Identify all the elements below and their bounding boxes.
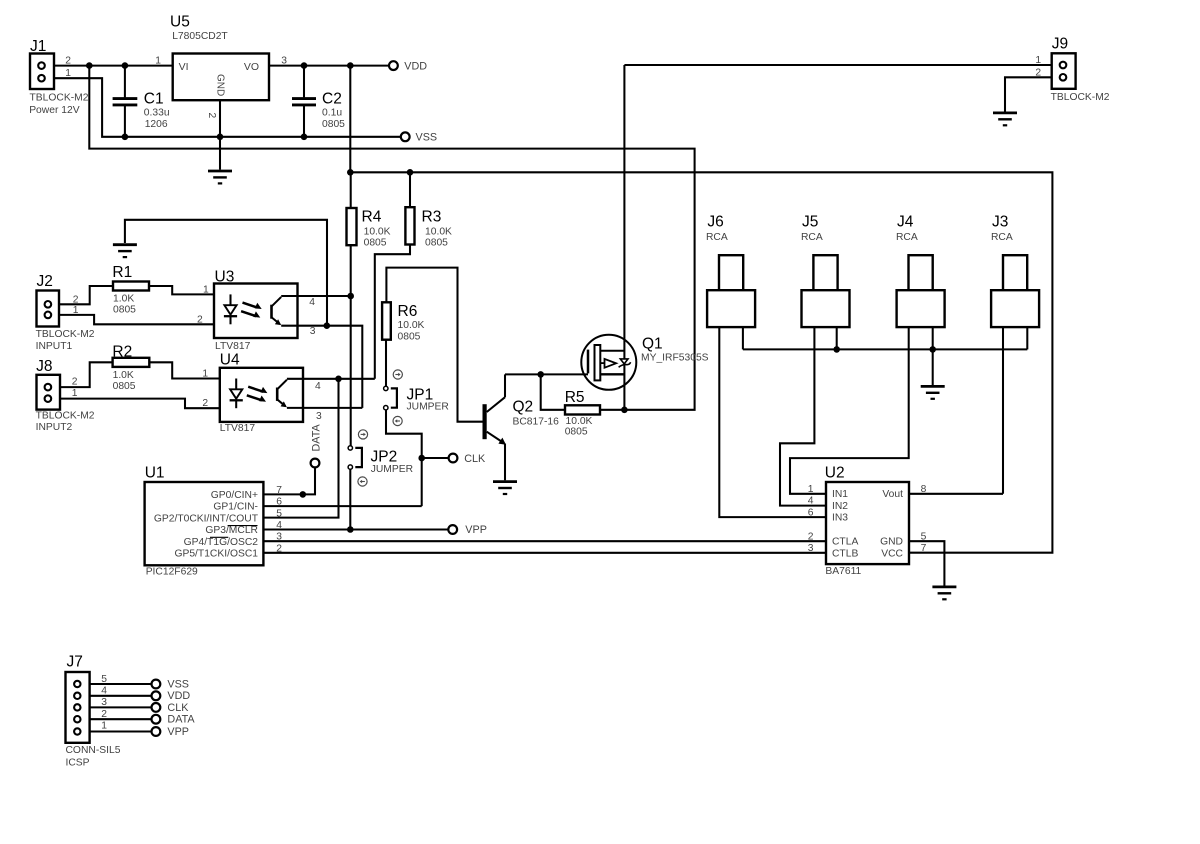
svg-text:VCC: VCC <box>881 548 903 559</box>
svg-text:4: 4 <box>309 297 315 308</box>
svg-text:1: 1 <box>202 369 208 380</box>
svg-text:5: 5 <box>101 674 107 685</box>
svg-text:5: 5 <box>276 508 282 519</box>
svg-text:L7805CD2T: L7805CD2T <box>172 31 228 42</box>
svg-text:IN3: IN3 <box>832 513 848 524</box>
svg-text:1: 1 <box>101 721 107 732</box>
svg-text:J8: J8 <box>36 358 52 375</box>
svg-text:J6: J6 <box>707 213 723 230</box>
svg-text:U1: U1 <box>145 464 165 481</box>
svg-text:U2: U2 <box>825 465 845 482</box>
svg-text:10.0K: 10.0K <box>566 416 593 427</box>
svg-text:1206: 1206 <box>145 119 168 130</box>
svg-text:8: 8 <box>921 484 927 495</box>
svg-text:R2: R2 <box>112 344 132 361</box>
svg-text:VSS: VSS <box>416 132 438 144</box>
svg-text:VO: VO <box>244 61 259 73</box>
svg-text:2: 2 <box>206 113 217 119</box>
svg-text:3: 3 <box>281 55 287 66</box>
svg-text:VSS: VSS <box>167 678 189 690</box>
svg-text:GND: GND <box>215 74 226 96</box>
svg-text:BA7611: BA7611 <box>825 566 861 577</box>
svg-text:6: 6 <box>808 507 814 518</box>
svg-text:IN1: IN1 <box>832 489 848 500</box>
svg-text:VDD: VDD <box>167 690 190 702</box>
svg-text:0805: 0805 <box>565 427 588 438</box>
svg-text:INPUT1: INPUT1 <box>36 341 73 352</box>
svg-text:CTLA: CTLA <box>832 537 858 548</box>
svg-text:2: 2 <box>101 709 107 720</box>
svg-text:Q1: Q1 <box>642 336 663 353</box>
svg-text:7: 7 <box>276 485 282 496</box>
svg-text:GP4/T1G/OSC2: GP4/T1G/OSC2 <box>184 537 259 548</box>
svg-text:2: 2 <box>1035 67 1041 78</box>
svg-text:RCA: RCA <box>896 232 918 243</box>
svg-text:R5: R5 <box>565 389 585 406</box>
svg-text:3: 3 <box>101 697 107 708</box>
svg-text:GP3/MCLR: GP3/MCLR <box>205 525 258 536</box>
svg-text:4: 4 <box>276 520 282 531</box>
svg-text:4: 4 <box>808 496 814 507</box>
svg-text:1: 1 <box>72 388 78 399</box>
svg-text:R4: R4 <box>362 208 382 225</box>
svg-text:7: 7 <box>921 543 927 554</box>
svg-text:U4: U4 <box>220 352 240 369</box>
svg-text:2: 2 <box>197 314 203 325</box>
svg-text:TBLOCK-M2: TBLOCK-M2 <box>30 93 89 104</box>
svg-text:U5: U5 <box>170 14 190 31</box>
svg-text:JUMPER: JUMPER <box>371 464 413 475</box>
svg-text:JUMPER: JUMPER <box>407 402 449 413</box>
svg-text:PIC12F629: PIC12F629 <box>146 567 198 578</box>
svg-text:1: 1 <box>1035 55 1041 66</box>
svg-text:GP0/CIN+: GP0/CIN+ <box>211 490 258 501</box>
svg-text:J4: J4 <box>897 213 914 230</box>
svg-text:5: 5 <box>921 532 927 543</box>
svg-text:Vout: Vout <box>882 489 903 500</box>
svg-text:VDD: VDD <box>404 60 427 72</box>
svg-text:0.33u: 0.33u <box>144 107 170 118</box>
svg-text:ICSP: ICSP <box>66 757 90 768</box>
svg-text:3: 3 <box>808 543 814 554</box>
svg-text:C1: C1 <box>144 90 164 107</box>
svg-text:Power 12V: Power 12V <box>29 105 80 116</box>
svg-text:VI: VI <box>179 61 189 73</box>
svg-text:R1: R1 <box>112 264 132 281</box>
svg-text:MY_IRF5305S: MY_IRF5305S <box>641 353 709 364</box>
svg-text:2: 2 <box>202 398 208 409</box>
svg-text:CTLB: CTLB <box>832 548 858 559</box>
svg-text:0805: 0805 <box>113 381 136 392</box>
svg-text:TBLOCK-M2: TBLOCK-M2 <box>36 329 95 340</box>
svg-text:J7: J7 <box>67 654 83 671</box>
svg-text:Q2: Q2 <box>513 399 534 416</box>
svg-text:3: 3 <box>276 532 282 543</box>
svg-text:BC817-16: BC817-16 <box>513 416 560 427</box>
svg-text:RCA: RCA <box>801 232 823 243</box>
svg-text:JP2: JP2 <box>371 449 398 466</box>
svg-text:10.0K: 10.0K <box>425 227 452 238</box>
svg-text:3: 3 <box>310 326 316 337</box>
svg-text:J2: J2 <box>37 273 53 290</box>
svg-text:VPP: VPP <box>167 726 189 738</box>
svg-text:CONN-SIL5: CONN-SIL5 <box>66 745 121 756</box>
svg-text:IN2: IN2 <box>832 501 848 512</box>
svg-text:GP5/T1CKI/OSC1: GP5/T1CKI/OSC1 <box>174 549 258 560</box>
svg-text:1.0K: 1.0K <box>113 370 134 381</box>
svg-text:2: 2 <box>276 543 282 554</box>
svg-text:1: 1 <box>203 284 209 295</box>
svg-text:R3: R3 <box>422 208 442 225</box>
svg-text:1: 1 <box>155 55 161 66</box>
svg-text:0805: 0805 <box>398 332 421 343</box>
svg-text:0805: 0805 <box>364 237 387 248</box>
svg-text:U3: U3 <box>215 269 235 286</box>
svg-text:J9: J9 <box>1052 36 1068 53</box>
svg-text:0805: 0805 <box>322 119 345 130</box>
svg-text:1: 1 <box>65 68 71 79</box>
svg-text:2: 2 <box>808 532 814 543</box>
svg-text:J1: J1 <box>30 38 46 55</box>
svg-text:RCA: RCA <box>991 232 1013 243</box>
svg-text:10.0K: 10.0K <box>398 320 425 331</box>
svg-text:2: 2 <box>72 377 78 388</box>
svg-text:DATA: DATA <box>167 714 195 726</box>
svg-text:DATA: DATA <box>310 424 322 452</box>
svg-text:VPP: VPP <box>465 524 487 536</box>
svg-text:CLK: CLK <box>464 453 486 465</box>
svg-text:INPUT2: INPUT2 <box>36 422 73 433</box>
svg-text:LTV817: LTV817 <box>215 341 251 352</box>
svg-text:0805: 0805 <box>113 305 136 316</box>
svg-text:J5: J5 <box>802 213 818 230</box>
svg-text:2: 2 <box>73 294 79 305</box>
svg-text:C2: C2 <box>322 90 342 107</box>
svg-text:0.1u: 0.1u <box>322 107 342 118</box>
svg-text:CLK: CLK <box>167 702 189 714</box>
svg-text:GND: GND <box>880 537 903 548</box>
svg-text:3: 3 <box>316 411 322 422</box>
svg-text:1.0K: 1.0K <box>113 294 134 305</box>
svg-text:TBLOCK-M2: TBLOCK-M2 <box>36 410 95 421</box>
svg-text:RCA: RCA <box>706 232 728 243</box>
svg-text:1: 1 <box>73 305 79 316</box>
svg-text:J3: J3 <box>992 213 1008 230</box>
svg-text:GP2/T0CKI/INT/COUT: GP2/T0CKI/INT/COUT <box>154 513 259 524</box>
svg-text:1: 1 <box>808 484 814 495</box>
svg-text:2: 2 <box>65 55 71 66</box>
svg-text:6: 6 <box>276 497 282 508</box>
svg-text:4: 4 <box>101 686 107 697</box>
svg-text:0805: 0805 <box>425 237 448 248</box>
svg-text:R6: R6 <box>398 303 418 320</box>
svg-text:4: 4 <box>315 381 321 392</box>
svg-text:10.0K: 10.0K <box>364 227 391 238</box>
svg-text:LTV817: LTV817 <box>220 423 256 434</box>
svg-text:TBLOCK-M2: TBLOCK-M2 <box>1051 92 1110 103</box>
svg-text:GP1/CIN-: GP1/CIN- <box>213 502 258 513</box>
